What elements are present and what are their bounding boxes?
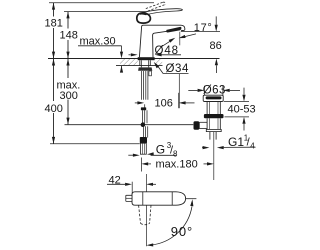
- G1 1/4 arrows: [201, 147, 204, 149]
- top view centerline: [146, 174, 148, 246]
- spout outlet ext line upper: [179, 32, 181, 46]
- hose fitting dark: [141, 107, 146, 110]
- pop-up rod line / max300 ref: [65, 124, 194, 126]
- svg-text:181: 181: [45, 18, 63, 30]
- Ø34 leader: [163, 73, 188, 75]
- left dims arrows: [52, 3, 55, 10]
- supply pipes upper: [140, 71, 142, 100]
- svg-text:106: 106: [155, 98, 173, 110]
- deck hatch left: [120, 59, 138, 66]
- svg-text:G1: G1: [228, 135, 244, 149]
- svg-text:max.30: max.30: [80, 36, 116, 48]
- label 400: [43, 101, 64, 113]
- aerator dark tilted disc: [166, 27, 181, 33]
- svg-text:148: 148: [60, 30, 78, 42]
- deck hatch right: [155, 59, 162, 66]
- 17° aerator angle arrow left: [161, 39, 173, 46]
- dim line vertical second (148/max300): [67, 12, 69, 125]
- svg-text:Ø63: Ø63: [203, 84, 226, 96]
- Ø63 arrows: [188, 89, 197, 91]
- faucet body outline: [139, 25, 185, 57]
- svg-text:86: 86: [210, 40, 222, 52]
- label max. 300: [55, 78, 82, 100]
- waste flange outline: [203, 95, 223, 101]
- escutcheon base dark band: [138, 57, 155, 60]
- 86 bottom arrow: [215, 65, 217, 73]
- G3/8 arrows: [128, 154, 133, 156]
- waste side inlet: [199, 122, 207, 128]
- hoses middle: [141, 110, 143, 123]
- waste seal ring dark: [204, 114, 224, 118]
- arc end radius tick: [186, 198, 197, 200]
- 40-53 ref top: [224, 101, 249, 103]
- 106 dim: [135, 102, 138, 104]
- label 181: [44, 17, 63, 29]
- waste body upper: [207, 102, 220, 115]
- svg-text:42: 42: [109, 174, 121, 186]
- max.180 dim: [140, 158, 142, 172]
- top view spout nub: [126, 195, 132, 201]
- waste body lower: [207, 118, 220, 129]
- svg-text:Ø34: Ø34: [166, 63, 190, 75]
- G3/8 hose cap dark: [140, 137, 147, 143]
- spout outlet ext line lower: [178, 74, 180, 108]
- svg-text:4: 4: [250, 142, 255, 151]
- svg-text:max.180: max.180: [156, 159, 198, 171]
- lever boss dark: [137, 13, 151, 23]
- waste bottom lip: [206, 129, 221, 131]
- G3/8 nut outline: [140, 143, 146, 154]
- waste plug dark band: [206, 96, 222, 99]
- ref line top 181: [49, 2, 154, 4]
- 90° swivel arc: [151, 206, 193, 245]
- top view body dashed: [139, 205, 151, 225]
- lever blade solid: [143, 9, 182, 15]
- 17°/86 top arrow: [215, 16, 217, 25]
- lever raised dashed: [146, 2, 166, 11]
- ref line top 148: [64, 11, 149, 13]
- label 148: [58, 29, 79, 41]
- deck bottom line: [116, 65, 163, 67]
- deck top line: [48, 58, 220, 60]
- dim line vertical left (181/400): [53, 3, 55, 144]
- spout underside: [153, 31, 167, 57]
- deck hole edges: [139, 60, 141, 65]
- Ø48 leader: [129, 54, 131, 56]
- shank tube: [140, 60, 142, 67]
- top view faucet outline: [132, 192, 186, 205]
- 40-53 arrow tails: [243, 88, 245, 95]
- 17° aerator angle arrow right: [181, 34, 196, 38]
- 17° underline: [181, 31, 220, 33]
- waste knurled knob: [194, 121, 200, 130]
- waste tailpiece: [210, 132, 216, 140]
- top view: 42 dim: [107, 183, 125, 185]
- svg-text:17°: 17°: [194, 22, 213, 34]
- mounting nut: [138, 67, 152, 70]
- svg-text:Ø48: Ø48: [155, 45, 179, 57]
- mounting stud clip: [149, 71, 152, 76]
- rod knob dot: [141, 122, 146, 127]
- svg-text:40-53: 40-53: [228, 103, 256, 115]
- waste: Ø63 ext lines: [204, 86, 223, 95]
- svg-text:8: 8: [173, 150, 178, 159]
- svg-text:G: G: [156, 143, 165, 157]
- 40-53 ref bottom: [225, 116, 250, 118]
- waste centerline ext: [213, 132, 215, 180]
- svg-text:90°: 90°: [171, 224, 193, 239]
- ref line 400 bottom: [50, 143, 140, 145]
- svg-text:300: 300: [60, 90, 78, 102]
- hoses lower: [142, 126, 144, 137]
- max.30 leader: [78, 45, 122, 47]
- svg-text:400: 400: [45, 103, 63, 115]
